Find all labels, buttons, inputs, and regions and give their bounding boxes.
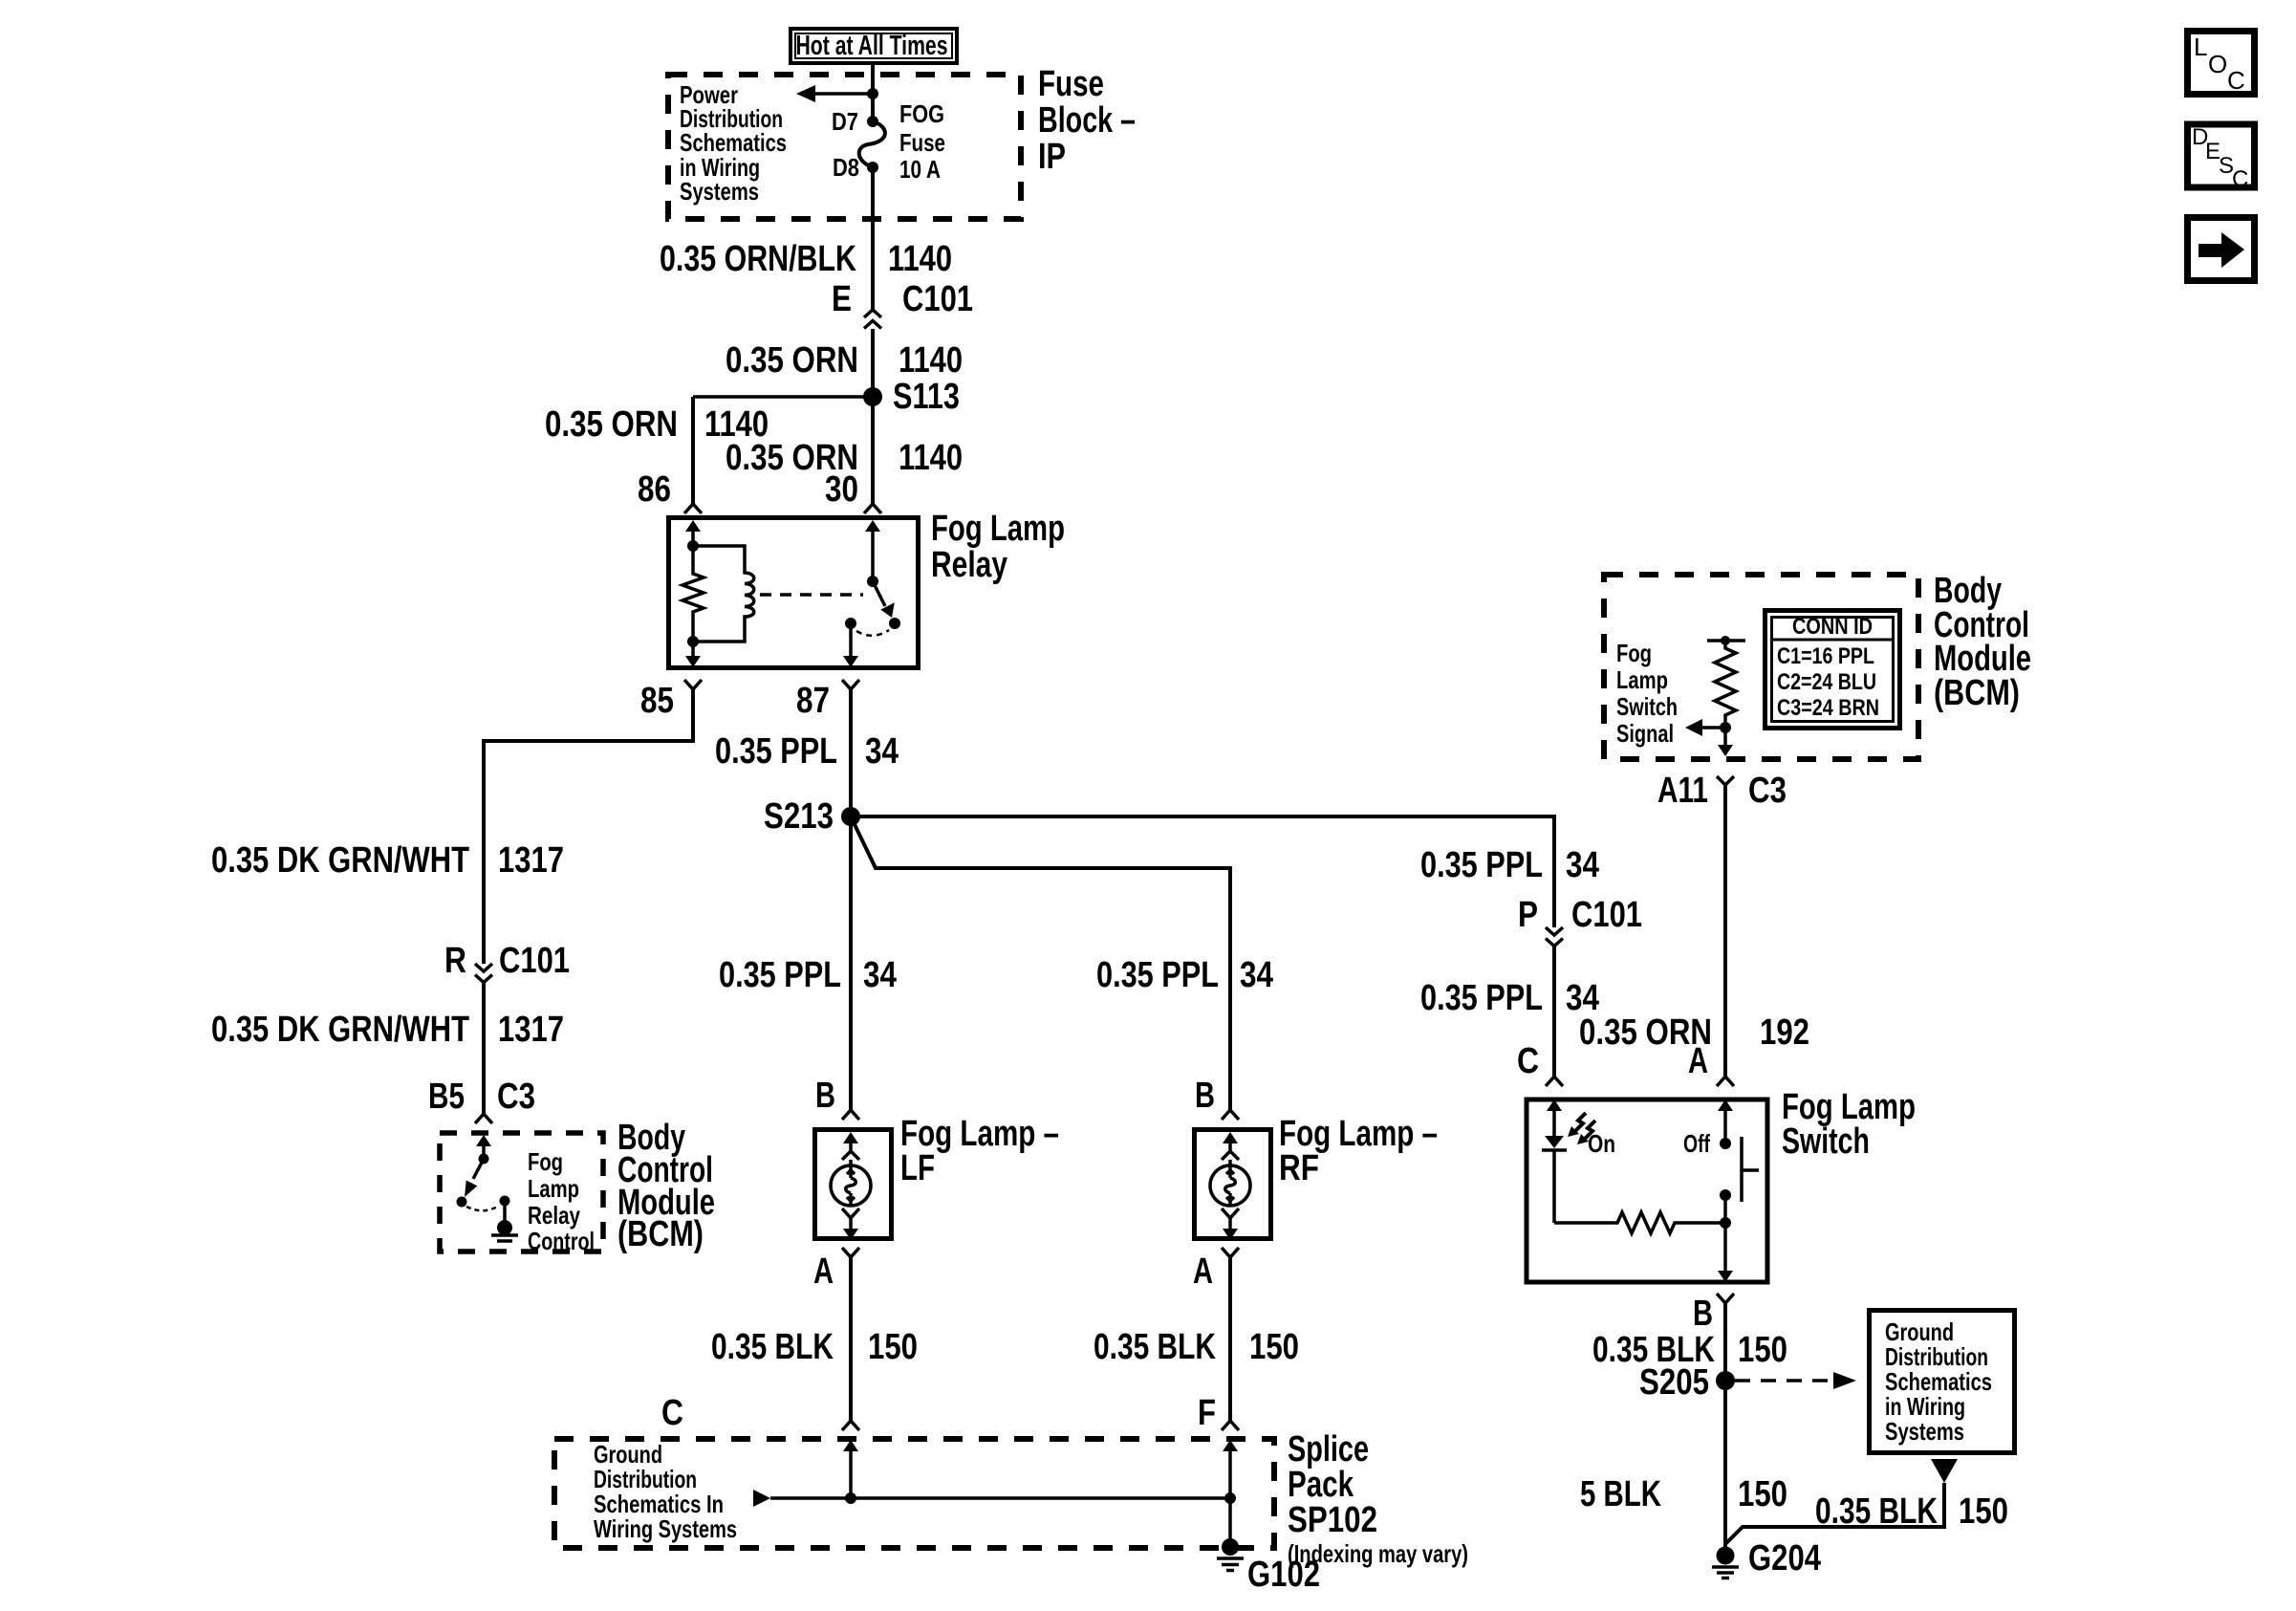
LF bulb	[831, 1160, 871, 1206]
svg-text:Block –: Block –	[1038, 100, 1136, 141]
Fog Lamp Switch Signal label	[1616, 639, 1678, 748]
svg-text:150: 150	[1738, 1330, 1787, 1370]
svg-text:C: C	[2232, 166, 2248, 192]
svg-text:R: R	[444, 941, 466, 981]
svg-text:S205: S205	[1639, 1362, 1709, 1403]
relay switch blade	[873, 581, 895, 618]
svg-text:0.35 DK GRN/WHT: 0.35 DK GRN/WHT	[211, 840, 469, 881]
LF entry arrow	[843, 1132, 858, 1150]
svg-text:C101: C101	[499, 941, 570, 981]
Fuse Block - IP dashed box	[668, 75, 1021, 219]
svg-text:0.35 PPL: 0.35 PPL	[715, 731, 837, 772]
svg-text:1140: 1140	[899, 438, 963, 478]
wire label 0.35 PPL 34 upper right	[1420, 845, 1599, 885]
Fuse Block - IP label	[1038, 64, 1136, 177]
connector E C101	[832, 279, 973, 329]
wire C101 to switch pin C	[1552, 947, 1556, 1078]
CONN ID table	[1765, 611, 1900, 729]
wire label 0.35 BLK 150 LF	[711, 1327, 918, 1367]
nav box DESC	[2188, 124, 2255, 192]
svg-text:S213: S213	[764, 796, 834, 837]
svg-text:Control: Control	[528, 1227, 595, 1255]
svg-text:1317: 1317	[498, 840, 564, 881]
svg-text:150: 150	[868, 1327, 918, 1367]
BCM dashed box right	[1604, 575, 1918, 759]
splice S205	[1639, 1362, 1735, 1403]
pin 87 connector chevron	[842, 680, 859, 689]
svg-text:A: A	[813, 1252, 834, 1292]
pin 86 connector chevron	[684, 504, 702, 513]
push button	[1742, 1137, 1759, 1202]
svg-text:L: L	[2194, 33, 2207, 61]
RF lower chevron	[1222, 1208, 1239, 1218]
wire label 0.35 ORN/BLK 1140	[660, 239, 952, 279]
Splice Pack SP102 dashed box	[554, 1439, 1274, 1548]
svg-text:CONN ID: CONN ID	[1792, 614, 1873, 640]
BCM relay contact	[500, 1196, 510, 1207]
wire C101 to BCM	[482, 983, 486, 1115]
switch pin B chevron	[1717, 1294, 1734, 1303]
svg-text:G204: G204	[1748, 1538, 1821, 1578]
power distribution arrow	[796, 85, 873, 102]
svg-text:85: 85	[640, 681, 674, 721]
pin 85 connector chevron	[684, 680, 702, 689]
BCM signal node	[1720, 722, 1731, 733]
ground G204	[1712, 1538, 1821, 1578]
svg-text:87: 87	[796, 681, 830, 721]
connector R C101	[444, 941, 570, 983]
svg-text:1140: 1140	[899, 340, 963, 381]
wire label 0.35 BLK 150 RF	[1094, 1327, 1299, 1367]
relay coil top node	[687, 540, 699, 552]
RF inner chevron	[1222, 1151, 1239, 1160]
svg-text:C: C	[2227, 66, 2245, 95]
svg-text:B5: B5	[428, 1077, 465, 1117]
svg-text:C: C	[661, 1393, 683, 1433]
relay actuation dashed link	[760, 593, 863, 597]
svg-text:1140: 1140	[888, 239, 952, 279]
pin B5 C3 labels	[428, 1077, 535, 1117]
svg-text:S113: S113	[893, 377, 960, 417]
Fog Lamp Switch box	[1527, 1099, 1767, 1282]
relay contact travel dashed arc	[856, 630, 889, 636]
svg-text:A11: A11	[1657, 771, 1708, 811]
switch pin A chevron	[1717, 1077, 1734, 1086]
splice pack pin C chevron	[842, 1421, 859, 1430]
Hot at All Times label box	[791, 29, 957, 63]
switch off contact	[1720, 1138, 1731, 1149]
splice pack C entry arrow	[843, 1440, 858, 1498]
switch exit arrow	[1718, 1223, 1733, 1282]
relay fixed contact pin 87	[845, 618, 856, 629]
svg-text:C101: C101	[902, 279, 973, 319]
svg-text:Pack: Pack	[1288, 1465, 1354, 1505]
BCM entry arrow	[476, 1135, 491, 1159]
relay pin 87 exit arrow	[843, 623, 858, 667]
svg-text:F: F	[1198, 1393, 1216, 1433]
wire label 0.35 ORN 1140	[726, 340, 963, 381]
BCM contact travel dashed arc	[466, 1206, 499, 1210]
svg-text:Signal: Signal	[1616, 719, 1674, 748]
svg-text:A: A	[1193, 1252, 1213, 1292]
splice pack F junction	[1224, 1492, 1236, 1504]
svg-text:0.35 BLK: 0.35 BLK	[1094, 1327, 1216, 1367]
wire switch pin B to G204	[1723, 1303, 1727, 1547]
svg-text:C3: C3	[497, 1077, 535, 1117]
svg-text:0.35 BLK: 0.35 BLK	[711, 1327, 834, 1367]
svg-text:Fog Lamp: Fog Lamp	[931, 509, 1065, 549]
connector P C101	[1518, 895, 1642, 947]
svg-text:Fuse: Fuse	[1038, 64, 1104, 104]
svg-text:SP102: SP102	[1288, 1500, 1377, 1540]
LF lower chevron	[842, 1208, 859, 1218]
wire ground distribution to G204	[1725, 1483, 1944, 1544]
ground distribution exit triangle	[1931, 1459, 1958, 1483]
wire pin 85 to BCM relay control	[484, 689, 693, 964]
Ground Distribution Schematics box	[1870, 1311, 2015, 1453]
svg-text:O: O	[2208, 50, 2227, 78]
svg-text:Wiring Systems: Wiring Systems	[594, 1514, 737, 1543]
RF label	[1279, 1114, 1438, 1188]
svg-text:Relay: Relay	[931, 545, 1007, 585]
svg-text:E: E	[832, 279, 852, 319]
Fog Lamp LF box	[815, 1130, 892, 1239]
svg-text:LF: LF	[900, 1148, 935, 1188]
svg-text:Systems: Systems	[1885, 1417, 1964, 1446]
wire label 0.35 ORN 1140 right branch	[726, 438, 963, 478]
svg-text:Splice: Splice	[1288, 1429, 1369, 1469]
svg-text:86: 86	[638, 469, 671, 510]
LF pin A connector chevron	[842, 1248, 859, 1257]
svg-text:Switch: Switch	[1616, 692, 1678, 721]
svg-text:C2=24 BLU: C2=24 BLU	[1777, 669, 1876, 695]
LF exit arrow	[843, 1218, 858, 1240]
svg-text:C3=24 BRN: C3=24 BRN	[1777, 695, 1879, 721]
splice pack pin F chevron	[1222, 1421, 1239, 1430]
relay pin 85 exit arrow	[685, 642, 701, 667]
pin A11 C3 labels	[1657, 771, 1787, 811]
svg-text:34: 34	[1566, 845, 1599, 885]
wire label 0.35 ORN 1140 left branch	[545, 404, 769, 445]
svg-text:FOG: FOG	[899, 99, 944, 128]
RF bulb	[1210, 1160, 1250, 1206]
wire fuse output to connector E	[871, 167, 875, 309]
wire label 0.35 DK GRN/WHT 1317	[211, 840, 564, 881]
relay pin 86 entry arrow	[685, 520, 701, 546]
splice pack C junction	[845, 1492, 856, 1504]
svg-text:On: On	[1588, 1129, 1615, 1158]
switch pin C chevron	[1546, 1077, 1563, 1086]
svg-text:34: 34	[863, 955, 897, 995]
svg-text:0.35 ORN: 0.35 ORN	[726, 340, 858, 381]
svg-text:0.35 PPL: 0.35 PPL	[719, 955, 841, 995]
BCM switch contact	[457, 1197, 467, 1208]
svg-text:RF: RF	[1279, 1148, 1319, 1188]
svg-text:0.35 ORN/BLK: 0.35 ORN/BLK	[660, 239, 856, 279]
RF exit arrow	[1223, 1218, 1238, 1240]
pin 30 connector chevron	[864, 504, 881, 513]
BCM relay control dashed box	[440, 1133, 603, 1252]
Fog Lamp Relay Control label	[528, 1147, 595, 1255]
svg-text:Fog: Fog	[1616, 639, 1652, 667]
pin B5 connector chevron	[475, 1114, 492, 1123]
BCM exit arrow	[1718, 728, 1733, 756]
relay moving contact	[889, 618, 900, 629]
relay resistor	[682, 546, 704, 642]
svg-text:0.35 DK GRN/WHT: 0.35 DK GRN/WHT	[211, 1010, 469, 1050]
svg-text:C3: C3	[1748, 771, 1787, 811]
relay pin 30 entry arrow	[865, 520, 880, 581]
pin A11 connector chevron	[1717, 776, 1734, 785]
relay coil	[693, 546, 754, 642]
relay coil bottom node	[687, 636, 699, 647]
wire S213 to fog lamp switch	[851, 816, 1554, 927]
svg-text:0.35 PPL: 0.35 PPL	[1420, 978, 1543, 1018]
RF pin A connector chevron	[1222, 1248, 1239, 1257]
Ground Distribution note SP102	[594, 1440, 737, 1543]
BCM pull-up resistor	[1707, 636, 1745, 722]
wire C101 to S113 to relay pin 30	[871, 329, 875, 504]
wire label 0.35 BLK 150 right	[1592, 1330, 1787, 1370]
fuse FOG 10A	[832, 99, 945, 184]
svg-text:1317: 1317	[498, 1010, 564, 1050]
svg-text:5 BLK: 5 BLK	[1580, 1474, 1661, 1514]
switch resistor	[1554, 1212, 1725, 1233]
wire label 0.35 ORN 192	[1579, 1012, 1809, 1053]
svg-text:(BCM): (BCM)	[1934, 673, 2020, 713]
relay box Fog Lamp Relay	[669, 518, 919, 668]
BCM internal ground	[491, 1201, 518, 1241]
svg-text:150: 150	[1738, 1474, 1787, 1514]
svg-text:Relay: Relay	[528, 1201, 580, 1230]
indicator LED	[1542, 1136, 1567, 1223]
svg-text:A: A	[1688, 1041, 1708, 1081]
LF pin B connector chevron	[842, 1110, 859, 1120]
svg-text:192: 192	[1760, 1012, 1809, 1053]
LF inner chevron	[842, 1151, 859, 1160]
wire label 0.35 PPL 34	[715, 731, 899, 772]
svg-text:Lamp: Lamp	[528, 1174, 579, 1203]
svg-text:B: B	[815, 1076, 835, 1116]
svg-text:0.35 BLK: 0.35 BLK	[1815, 1491, 1938, 1532]
svg-text:Systems: Systems	[680, 177, 759, 206]
Power Distribution Schematics note	[680, 80, 787, 206]
On Off labels	[1588, 1129, 1710, 1158]
svg-text:Hot at All Times: Hot at All Times	[796, 31, 948, 61]
wire label 0.35 PPL 34 LF	[719, 955, 897, 995]
dashed reference to ground distribution	[1735, 1372, 1856, 1389]
svg-text:D7: D7	[832, 107, 858, 136]
ground G102	[1217, 1538, 1320, 1595]
svg-text:B: B	[1195, 1076, 1215, 1116]
svg-text:Off: Off	[1683, 1129, 1710, 1158]
svg-text:G102: G102	[1247, 1555, 1320, 1595]
Body Control Module BCM label right	[1934, 571, 2031, 713]
relay switch pivot	[867, 576, 878, 587]
svg-text:Lamp: Lamp	[1616, 665, 1668, 694]
wire LF to splice pack	[849, 1257, 853, 1421]
RF entry arrow	[1223, 1132, 1238, 1150]
svg-text:C1=16 PPL: C1=16 PPL	[1777, 643, 1874, 669]
svg-text:0.35 ORN: 0.35 ORN	[545, 404, 678, 445]
RF pin B connector chevron	[1222, 1110, 1239, 1120]
svg-text:0.35 PPL: 0.35 PPL	[1096, 955, 1219, 995]
svg-text:34: 34	[1240, 955, 1273, 995]
svg-text:C: C	[1517, 1041, 1539, 1081]
wire label 0.35 DK GRN/WHT 1317 lower	[211, 1010, 564, 1050]
Fog Lamp RF box	[1195, 1130, 1271, 1239]
svg-text:(BCM): (BCM)	[617, 1214, 704, 1254]
LF label	[900, 1114, 1059, 1188]
BCM switch pivot	[479, 1154, 489, 1165]
wire S213 to RF lamp	[851, 816, 1230, 1110]
svg-text:B: B	[1693, 1294, 1713, 1334]
splice pack F entry arrow	[1223, 1440, 1238, 1547]
svg-text:30: 30	[825, 469, 858, 510]
switch A entry arrow	[1718, 1099, 1733, 1143]
wire label 0.35 PPL 34 RF	[1096, 955, 1273, 995]
svg-text:34: 34	[1566, 978, 1599, 1018]
svg-text:150: 150	[1249, 1327, 1299, 1367]
Splice Pack SP102 label	[1288, 1429, 1468, 1568]
nav arrow box	[2188, 218, 2255, 281]
wire label 5 BLK 150	[1580, 1474, 1787, 1514]
svg-text:Switch: Switch	[1782, 1121, 1870, 1162]
switch on contact	[1720, 1189, 1731, 1201]
junction dot at fuse feed	[867, 88, 878, 99]
svg-text:0.35 PPL: 0.35 PPL	[1420, 845, 1543, 885]
wire label 0.35 PPL 34 lower right	[1420, 978, 1599, 1018]
Fog Lamp Switch label	[1782, 1087, 1916, 1162]
wire pin 87 down to S213 and LF lamp	[849, 689, 853, 1110]
BCM switch blade	[465, 1159, 484, 1197]
BCM signal arrow	[1685, 719, 1725, 736]
splice S113	[863, 377, 960, 417]
svg-text:150: 150	[1959, 1491, 2008, 1532]
switch C entry arrow	[1547, 1099, 1562, 1136]
Fog Lamp Relay label	[931, 509, 1065, 585]
wire RF to splice pack	[1228, 1257, 1232, 1421]
svg-text:Fuse: Fuse	[899, 128, 945, 157]
svg-text:IP: IP	[1038, 137, 1066, 177]
splice pack bus arrow	[753, 1490, 1230, 1507]
svg-text:P: P	[1518, 895, 1538, 935]
wire label 0.35 BLK 150 bottom	[1815, 1491, 2008, 1532]
svg-text:10 A: 10 A	[899, 155, 941, 184]
wire hot feed into fuse block	[871, 65, 875, 117]
svg-text:34: 34	[865, 731, 899, 772]
splice S213	[764, 796, 860, 837]
wire S113 branch to relay pin 86	[693, 395, 873, 399]
Body Control Module BCM label left	[617, 1118, 715, 1254]
svg-text:Fog: Fog	[528, 1147, 563, 1176]
nav box LOC	[2188, 32, 2255, 96]
svg-text:D8: D8	[833, 153, 859, 182]
LED flash arrows	[1568, 1113, 1595, 1144]
switch output node	[1720, 1217, 1731, 1229]
svg-text:C101: C101	[1571, 895, 1642, 935]
wire A11 to switch pin A	[1723, 785, 1727, 1077]
